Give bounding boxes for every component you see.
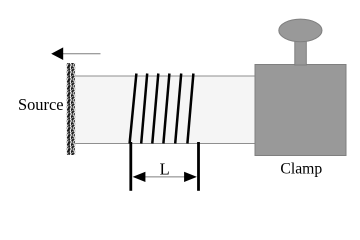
- label L: [160, 160, 170, 179]
- dimension extension line left: [129, 142, 132, 191]
- coil turn 4: [163, 74, 169, 144]
- clamp body: [255, 65, 346, 156]
- coil turn 6: [187, 74, 193, 144]
- source wall (speckled bar): [66, 63, 75, 155]
- motion arrow: [51, 47, 100, 60]
- label Source: [18, 95, 64, 114]
- clamp knob: [279, 19, 322, 42]
- svg-text:Source: Source: [18, 95, 64, 114]
- svg-text:Clamp: Clamp: [280, 161, 322, 178]
- coil turn 3: [152, 74, 158, 144]
- coil turn 5: [175, 74, 181, 144]
- clamp stem: [295, 30, 307, 65]
- dimension extension line right: [197, 142, 200, 191]
- rod (tube between source and clamp): [70, 76, 260, 144]
- dimension double arrow: [133, 172, 197, 182]
- svg-text:L: L: [160, 160, 170, 179]
- label Clamp: [280, 161, 322, 178]
- coil turn 2: [141, 74, 147, 144]
- coil turn 1: [130, 74, 137, 144]
